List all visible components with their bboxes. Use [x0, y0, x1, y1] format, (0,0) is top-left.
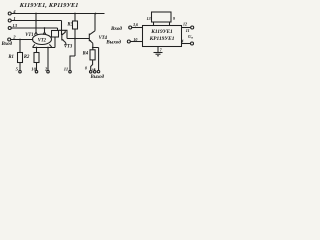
resistor R3	[73, 21, 78, 29]
node R2 top	[36, 47, 38, 49]
input terminal Вход	[8, 38, 11, 41]
terminal out right	[127, 40, 130, 43]
wire R4 bottom	[91, 60, 93, 71]
svg-text:Uп: Uп	[188, 34, 193, 40]
wire R2 bottom	[36, 63, 38, 71]
wire VT4 collector	[94, 14, 96, 31]
svg-text:R4: R4	[83, 51, 89, 56]
wire rail3	[11, 27, 57, 29]
wire stub 9	[169, 22, 171, 26]
svg-text:11: 11	[64, 66, 68, 71]
transistor VT4	[88, 34, 90, 42]
svg-text:3,6: 3,6	[132, 22, 138, 27]
terminal 11	[69, 70, 72, 73]
terminal 2	[47, 70, 50, 73]
svg-text:VT3: VT3	[64, 44, 73, 49]
terminal in right	[129, 26, 132, 29]
wire R3 bottom drop	[74, 29, 76, 56]
svg-text:9: 9	[173, 16, 175, 21]
input terminal pin 4	[8, 12, 11, 15]
svg-text:7: 7	[160, 48, 163, 53]
wire terminal 2 drop	[47, 48, 49, 71]
emitter leg left	[33, 44, 35, 47]
resistor R1	[18, 53, 23, 63]
wire rail1	[11, 13, 104, 15]
wire R5 top link	[59, 30, 68, 38]
svg-text:4: 4	[180, 38, 183, 43]
emitter leg right	[49, 44, 52, 47]
resistor R2	[34, 53, 39, 63]
wire R1 bottom	[19, 63, 21, 71]
resistor R4	[90, 50, 95, 60]
wire R3 top	[74, 14, 76, 22]
wire out right	[130, 41, 142, 43]
wire R4 top	[92, 48, 94, 50]
svg-text:5: 5	[16, 66, 19, 71]
ground	[154, 52, 163, 54]
node rail1-R3	[74, 13, 76, 15]
input terminal pin 1	[8, 19, 11, 22]
terminal 5	[19, 70, 22, 73]
svg-text:К119УЕ1, КР119УЕ1: К119УЕ1, КР119УЕ1	[18, 3, 78, 9]
svg-text:Выход: Выход	[90, 75, 105, 80]
node rail1-VT4	[95, 13, 97, 15]
wire ground stem	[157, 47, 159, 53]
resistor R5 square	[52, 31, 59, 38]
wire rail2 drop	[61, 21, 63, 36]
wire output drop	[98, 48, 100, 71]
svg-text:VT2: VT2	[38, 39, 47, 44]
node base junction	[19, 39, 21, 41]
wire emitter bus	[33, 47, 56, 49]
node rail1-VT1	[35, 13, 37, 15]
top loop box	[152, 12, 172, 22]
terminal output	[97, 70, 100, 73]
wire VT1 base drop	[35, 14, 37, 33]
terminal 12	[191, 26, 194, 29]
wire VT4 emitter	[93, 43, 99, 47]
svg-text:КР119УЕ1: КР119УЕ1	[149, 36, 175, 42]
svg-text:VT1: VT1	[25, 33, 33, 38]
wire VT4 base line	[67, 38, 89, 40]
svg-text:Выход: Выход	[105, 38, 121, 45]
node rail2 x36	[35, 20, 37, 22]
node emitter-R4	[92, 47, 94, 49]
svg-text:8: 8	[85, 66, 87, 71]
svg-text:R2: R2	[24, 55, 30, 60]
wire rail3 corner into R5	[57, 28, 59, 31]
terminal 8	[89, 71, 92, 74]
stub pin 9	[94, 68, 96, 70]
node terminal2 top	[47, 47, 49, 49]
svg-text:2: 2	[12, 35, 16, 40]
wire pin12	[182, 27, 191, 29]
wire pin4	[182, 43, 191, 45]
wire in right	[132, 27, 143, 29]
wire R2 top	[36, 48, 38, 53]
svg-text:13: 13	[12, 23, 17, 28]
svg-text:Вход: Вход	[110, 25, 122, 32]
wire R5 bottom to bus	[54, 37, 56, 48]
node rail3-VT2	[44, 27, 46, 29]
node R3-base	[74, 38, 76, 40]
svg-text:11: 11	[186, 28, 190, 33]
wire base	[11, 39, 34, 41]
terminal 9	[93, 71, 96, 74]
wire R1 top	[19, 40, 21, 53]
wire to terminal 11	[70, 56, 75, 70]
IC box	[143, 26, 182, 47]
svg-text:Вход: Вход	[1, 42, 13, 47]
wire VT2 drop	[44, 28, 46, 32]
svg-text:13: 13	[147, 16, 151, 21]
terminal 10	[35, 70, 38, 73]
svg-text:12: 12	[183, 21, 187, 26]
svg-text:R1: R1	[8, 55, 13, 60]
wire stub 13	[153, 22, 155, 26]
wire rail2	[11, 20, 61, 22]
svg-text:К119УЕ1: К119УЕ1	[150, 29, 173, 35]
transistor VT1 VT2 envelope	[33, 34, 52, 44]
input terminal pin 13	[8, 27, 11, 30]
svg-text:10: 10	[31, 66, 36, 71]
transistor VT3	[61, 33, 63, 40]
terminal 4	[191, 42, 194, 45]
